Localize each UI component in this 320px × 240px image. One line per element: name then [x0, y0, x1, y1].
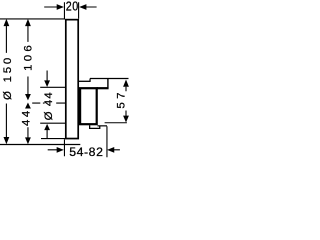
svg-text:57: 57 — [116, 89, 128, 108]
svg-text:Ø 150: Ø 150 — [2, 55, 14, 100]
svg-text:20: 20 — [66, 0, 79, 14]
svg-text:54-82: 54-82 — [69, 145, 103, 159]
svg-text:44: 44 — [20, 108, 32, 126]
svg-text:Ø 44: Ø 44 — [43, 91, 55, 120]
svg-text:106: 106 — [23, 42, 35, 71]
